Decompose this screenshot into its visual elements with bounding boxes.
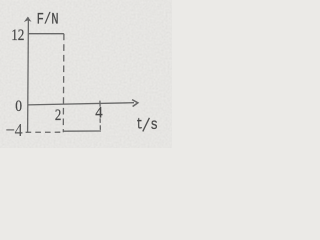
F-t graph xyxy=(0,0,172,148)
svg-text:0: 0 xyxy=(15,98,22,115)
svg-text:12: 12 xyxy=(11,27,24,44)
svg-text:4: 4 xyxy=(15,120,23,140)
y-axis (F axis) xyxy=(27,18,30,133)
paper background xyxy=(0,0,172,148)
svg-text:s: s xyxy=(150,116,158,134)
dashed vertical at t=4 below axis xyxy=(99,118,101,131)
slash of t/s label xyxy=(143,118,150,132)
dashed vertical at t=2 xyxy=(62,34,65,133)
svg-text:2: 2 xyxy=(55,107,61,124)
tick at t=4 xyxy=(99,101,101,107)
dashed horizontal at F=-4 xyxy=(26,131,64,133)
x-axis (t axis) xyxy=(28,103,134,105)
F=-4 segment (2 to 4 s) xyxy=(64,130,102,132)
minus of -4 label xyxy=(6,129,14,131)
svg-text:4: 4 xyxy=(95,104,102,121)
svg-text:t: t xyxy=(136,115,143,133)
F=12 segment (0 to 2 s) xyxy=(28,33,64,35)
x-axis arrowhead xyxy=(132,100,138,107)
svg-text:F/N: F/N xyxy=(37,11,59,29)
y-axis arrowhead xyxy=(24,17,32,22)
